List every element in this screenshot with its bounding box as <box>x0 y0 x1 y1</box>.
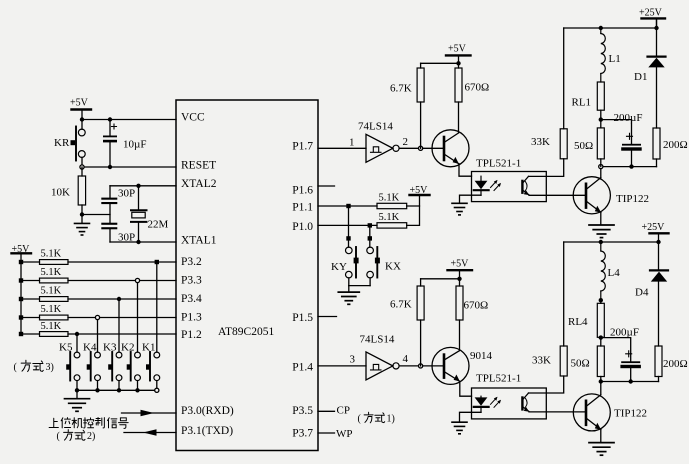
resistor 10K <box>51 167 86 215</box>
node rail K3 <box>117 388 121 392</box>
svg-text:(: ( <box>14 362 18 373</box>
node VCC/KR junction <box>80 117 84 121</box>
svg-text:10µF: 10µF <box>123 139 146 151</box>
wire ground to crystal caps <box>82 214 110 216</box>
resistor 50ohm (ch1) <box>574 128 604 167</box>
optocoupler U4 TPL521-1 (ch2) box <box>472 373 547 419</box>
wire P1.4 to inverter <box>318 365 366 367</box>
svg-text:200Ω: 200Ω <box>663 139 688 151</box>
ground (reset divider) <box>75 215 90 236</box>
svg-text:K5: K5 <box>59 342 73 354</box>
wire Q1 emitter to opto1 LED <box>459 164 472 176</box>
inductor L4 <box>601 242 620 300</box>
node RL4/cap branch <box>599 335 603 339</box>
wire opto1 collector to 33K <box>529 159 564 177</box>
svg-text:P3.5: P3.5 <box>292 405 313 417</box>
svg-text:200µF: 200µF <box>614 112 643 124</box>
svg-text:(: ( <box>57 431 61 442</box>
svg-text:KY: KY <box>331 261 347 273</box>
ground (TIP122 ch2) <box>589 443 614 456</box>
switch KY <box>331 206 359 286</box>
svg-text:22M: 22M <box>148 219 169 231</box>
node top rail / L4 <box>599 240 603 244</box>
wire P1.6 stub <box>318 185 335 187</box>
svg-text:5.1K: 5.1K <box>41 286 62 297</box>
node RL1/cap branch <box>599 117 603 121</box>
wire KY/KX common <box>349 285 370 287</box>
ground (opto2) <box>452 422 467 434</box>
power +25V (ch1) <box>639 8 665 29</box>
wire P1.5 stub <box>318 316 337 318</box>
inverter U2B 74LS14 <box>360 334 400 380</box>
svg-text:TPL521-1: TPL521-1 <box>476 158 521 170</box>
label (fangshi2) <box>57 430 96 442</box>
svg-text:KR: KR <box>54 137 70 149</box>
capacitor C 30P upper <box>101 186 135 223</box>
power +5V (pullups) <box>410 185 430 196</box>
svg-text:P1.6: P1.6 <box>292 185 313 197</box>
ground (KY KX) <box>338 286 359 305</box>
svg-text:6.7K: 6.7K <box>390 299 412 311</box>
switch K4 <box>83 342 100 391</box>
svg-text:5.1K: 5.1K <box>41 267 62 278</box>
svg-text:KX: KX <box>385 261 401 273</box>
wire ch1 output rail <box>601 166 657 168</box>
wire RESET <box>82 166 176 168</box>
optocoupler U3 TPL521-1 (ch1) box <box>472 158 547 202</box>
wire P1.0 <box>318 224 377 226</box>
node bus row2 <box>19 278 23 282</box>
svg-text:P1.5: P1.5 <box>292 312 313 324</box>
svg-text:L1: L1 <box>609 53 621 65</box>
node XTAL1/crystal <box>136 240 140 244</box>
resistor 33K (ch2) <box>532 242 567 376</box>
wire key common rail <box>77 389 157 391</box>
svg-text:3): 3) <box>46 362 54 373</box>
wire inverter output to Q1 base <box>399 147 443 149</box>
svg-text:9014: 9014 <box>470 350 493 362</box>
svg-text:P1.2: P1.2 <box>181 329 202 341</box>
node P1.1/KY <box>346 204 350 208</box>
node VCC/C10uF junction <box>108 117 112 121</box>
opto1 phototransistor <box>522 176 529 195</box>
capacitor 200uF (ch1) <box>601 112 643 167</box>
node below L4 <box>599 298 603 302</box>
opto1 LED <box>474 176 489 195</box>
wire XTAL2 <box>110 185 176 187</box>
svg-text:670Ω: 670Ω <box>464 300 489 312</box>
svg-text:TIP122: TIP122 <box>614 408 647 420</box>
svg-text:5.1K: 5.1K <box>41 304 62 315</box>
svg-text:2): 2) <box>87 431 95 442</box>
resistor 50ohm (ch2) <box>571 346 605 382</box>
wire VCC <box>82 119 176 121</box>
node row4/K4 <box>95 315 99 319</box>
wire opto1 LED cathode to ground <box>460 195 482 202</box>
resistor 5.1K (P1.0 pullup) <box>377 206 420 228</box>
wire +5V bus vertical <box>20 254 22 334</box>
svg-text:6.7K: 6.7K <box>390 83 412 95</box>
svg-text:5.1K: 5.1K <box>41 249 62 260</box>
svg-text:K1: K1 <box>142 342 155 354</box>
node rail K5 <box>75 388 79 392</box>
wire TIP122 collector up <box>600 167 602 178</box>
diode D4 <box>635 242 668 346</box>
resistor 5.1K row1 (P3.2) <box>21 249 176 265</box>
resistor 200ohm (ch1) <box>653 128 688 167</box>
resistor 6.7K (ch1) <box>390 63 459 148</box>
switch K5 <box>59 342 80 391</box>
node rail K1 <box>155 388 159 392</box>
svg-text:P1.7: P1.7 <box>292 141 313 153</box>
resistor 5.1K row5 (P1.2) <box>21 321 176 336</box>
svg-text:P3.7: P3.7 <box>292 428 313 440</box>
svg-text:K2: K2 <box>121 342 134 354</box>
svg-text:P3.3: P3.3 <box>181 275 202 287</box>
inductor L1 <box>601 28 621 82</box>
svg-text:P3.4: P3.4 <box>181 293 202 305</box>
node +5V/670 junction (ch1) <box>456 61 460 65</box>
inverter U2A 74LS14 <box>358 121 399 163</box>
svg-text:+5V: +5V <box>451 259 470 270</box>
wire K5 drop <box>76 334 78 352</box>
wire TIP122 ch2 collector up <box>600 382 602 395</box>
wire P3.7 WP stub <box>318 428 353 440</box>
wire TIP122 ch2 emitter to ground <box>600 430 602 442</box>
resistor RL4 <box>568 300 604 346</box>
resistor 6.7K (ch2) <box>390 279 460 366</box>
node bus row4 <box>19 315 23 319</box>
wire opto2 collector to 33K <box>529 376 564 393</box>
resistor 5.1K (P1.1 pullup) <box>377 193 420 209</box>
svg-text:50Ω: 50Ω <box>571 358 590 370</box>
ground (opto1) <box>452 203 467 215</box>
svg-text:P1.0: P1.0 <box>292 221 313 233</box>
wire ch1 top rail +25V <box>564 27 657 29</box>
svg-text:2: 2 <box>403 136 409 148</box>
wire Q2 emitter to opto2 LED <box>460 382 472 397</box>
node row1/K1 <box>155 260 159 264</box>
node P1.0/KX <box>368 223 372 227</box>
svg-text:L4: L4 <box>608 267 621 279</box>
svg-text:10K: 10K <box>51 187 70 199</box>
switch K1 <box>142 342 160 391</box>
resistor 33K (ch1) <box>531 28 567 159</box>
switch K3 <box>103 342 122 391</box>
svg-text:50Ω: 50Ω <box>574 140 593 152</box>
node RESET/C10uF junction <box>108 165 112 169</box>
node rail/collector ch1 <box>599 165 603 169</box>
svg-text:P3.1(TXD): P3.1(TXD) <box>181 425 233 437</box>
transistor Q1 NPN <box>432 130 469 167</box>
wire opto2 emitter to TIP122 base <box>529 411 586 413</box>
node +5V/670 junction (ch2) <box>457 277 461 281</box>
node row2/K2 <box>135 278 139 282</box>
wire K3 drop <box>118 299 120 352</box>
power +5V (ch2 driver) <box>448 259 473 287</box>
svg-text:XTAL2: XTAL2 <box>181 178 217 190</box>
svg-text:+5V: +5V <box>448 44 467 55</box>
transistor Q2 9014 <box>432 347 493 384</box>
node rail K4 <box>95 388 99 392</box>
svg-text:200µF: 200µF <box>610 327 639 339</box>
svg-text:CP: CP <box>337 405 350 417</box>
resistor 5.1K row3 (P3.4) <box>21 286 176 302</box>
svg-text:P3.0(RXD): P3.0(RXD) <box>181 405 234 417</box>
svg-text:74LS14: 74LS14 <box>358 121 393 133</box>
wire K1 drop <box>156 262 158 352</box>
switch KR (reset button) <box>54 120 85 168</box>
svg-text:74LS14: 74LS14 <box>360 334 395 346</box>
capacitor 10uF <box>103 120 146 168</box>
opto2 phototransistor <box>522 393 529 412</box>
svg-text:AT89C2051: AT89C2051 <box>218 326 274 338</box>
wire P3.0 RXD with arrow <box>122 410 177 417</box>
resistor RL1 <box>572 82 605 128</box>
switch K2 <box>121 342 140 391</box>
svg-text:1): 1) <box>387 414 395 425</box>
svg-text:4: 4 <box>403 353 409 365</box>
ground (TIP122 ch1) <box>589 225 614 238</box>
node RESET/KR junction <box>80 165 84 169</box>
svg-text:+25V: +25V <box>642 222 666 233</box>
svg-text:P1.4: P1.4 <box>292 362 313 374</box>
svg-text:XTAL1: XTAL1 <box>181 235 217 247</box>
svg-text:RESET: RESET <box>181 160 216 172</box>
wire ch2 top rail +25V <box>564 241 659 243</box>
node top rail / +25V ch2 <box>656 240 660 244</box>
opto2 light arrows <box>491 397 502 408</box>
svg-text:5.1K: 5.1K <box>379 212 400 223</box>
node row3/K3 <box>117 297 121 301</box>
node inverter/6.7K junction <box>419 146 423 150</box>
wire inverter output to Q2 base <box>399 365 443 367</box>
opto1 light arrows <box>491 180 502 191</box>
svg-text:1: 1 <box>349 137 355 149</box>
resistor 200ohm (ch2) <box>655 346 688 382</box>
svg-text:P1.3: P1.3 <box>181 312 202 324</box>
wire ch2 output rail <box>601 381 659 383</box>
svg-text:K3: K3 <box>103 342 117 354</box>
transistor TIP122 (ch2) <box>573 394 647 431</box>
capacitor 200uF (ch2) <box>601 327 641 382</box>
power +5V (reset circuit) <box>70 98 91 120</box>
svg-text:200Ω: 200Ω <box>663 358 688 370</box>
node bus row5 <box>19 332 23 336</box>
transistor TIP122 (ch1) <box>573 177 649 214</box>
label (fangshi3) <box>14 360 54 373</box>
svg-text:3: 3 <box>350 354 356 366</box>
node bus row1 <box>19 260 23 264</box>
wire K2 drop <box>137 281 139 353</box>
svg-text:P1.1: P1.1 <box>292 202 313 214</box>
resistor 670ohm (ch2) <box>456 286 488 351</box>
node row5/K5 <box>75 332 79 336</box>
IC U1 AT89C2051 body <box>176 100 318 451</box>
wire XTAL1 <box>110 241 176 243</box>
power +25V (ch2) <box>642 222 669 242</box>
svg-text:670Ω: 670Ω <box>465 82 490 94</box>
svg-text:+5V: +5V <box>70 98 89 109</box>
node rail/cap ch1 <box>629 164 633 168</box>
wire TIP122 emitter to ground <box>600 212 602 224</box>
svg-text:K4: K4 <box>83 342 97 354</box>
node top rail / +25V <box>654 26 658 30</box>
switch KX <box>367 225 401 285</box>
resistor 5.1K row4 (P1.3) <box>21 304 176 320</box>
diode D1 <box>634 20 666 128</box>
ground (key matrix) <box>65 390 90 411</box>
node rail/collector ch2 <box>599 379 603 383</box>
power +5V (ch1 driver) <box>446 44 471 69</box>
wire opto2 LED cathode to ground <box>460 412 482 421</box>
node rail K2 <box>135 388 139 392</box>
node top rail / L1 <box>599 26 603 30</box>
svg-text:D1: D1 <box>634 71 647 83</box>
resistor 5.1K row2 (P3.3) <box>21 267 176 283</box>
svg-text:RL4: RL4 <box>568 316 588 328</box>
node inverter/6.7K junction ch2 <box>419 364 423 368</box>
wire opto1 emitter to TIP122 base <box>529 194 586 196</box>
wire P1.7 to inverter <box>318 147 366 149</box>
svg-text:+25V: +25V <box>639 8 663 19</box>
svg-text:30P: 30P <box>118 188 135 200</box>
node XTAL2/crystal <box>136 184 140 188</box>
wire P3.5 CP stub <box>318 405 350 417</box>
svg-text:33K: 33K <box>531 136 550 148</box>
label host control signal (chinese) <box>49 418 128 429</box>
svg-text:5.1K: 5.1K <box>379 193 400 204</box>
svg-text:VCC: VCC <box>181 112 205 124</box>
node rail/cap ch2 <box>629 379 633 383</box>
svg-text:P3.2: P3.2 <box>181 256 202 268</box>
power +5V (key matrix pull-ups) <box>12 244 32 255</box>
wire P3.1 TXD with arrow <box>124 429 176 436</box>
svg-text:D4: D4 <box>635 287 649 299</box>
svg-text:(: ( <box>358 414 362 425</box>
resistor 670ohm (ch1) <box>455 68 489 133</box>
svg-text:RL1: RL1 <box>572 97 592 109</box>
wire P1.1 <box>318 205 377 207</box>
crystal 22M <box>131 186 169 242</box>
label (fangshi1) <box>358 412 395 424</box>
node bus row3 <box>19 297 23 301</box>
node 10K bottom junction <box>80 212 84 216</box>
svg-text:5.1K: 5.1K <box>41 321 62 332</box>
svg-text:WP: WP <box>336 428 353 440</box>
opto2 LED <box>474 396 489 412</box>
wire K4 drop <box>97 318 99 353</box>
svg-text:TPL521-1: TPL521-1 <box>476 373 521 385</box>
svg-text:TIP122: TIP122 <box>616 193 649 205</box>
svg-text:33K: 33K <box>532 355 551 367</box>
capacitor C 30P lower <box>101 223 135 244</box>
